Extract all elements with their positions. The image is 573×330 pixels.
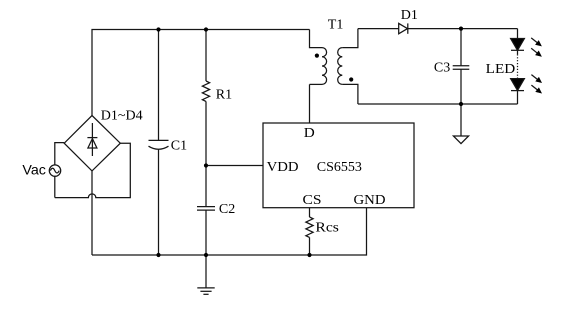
svg-text:C2: C2 — [219, 202, 235, 217]
svg-text:D1~D4: D1~D4 — [101, 108, 143, 123]
svg-text:C1: C1 — [171, 139, 187, 154]
svg-text:Rcs: Rcs — [315, 220, 339, 235]
svg-text:VDD: VDD — [267, 160, 299, 175]
svg-text:LED: LED — [486, 62, 516, 77]
svg-text:C3: C3 — [434, 60, 450, 75]
svg-text:R1: R1 — [216, 87, 232, 102]
svg-text:Vac: Vac — [22, 162, 46, 178]
svg-text:CS6553: CS6553 — [317, 160, 362, 175]
svg-text:CS: CS — [303, 193, 322, 208]
svg-text:D1: D1 — [401, 8, 418, 23]
svg-text:T1: T1 — [328, 17, 344, 32]
svg-text:GND: GND — [354, 193, 386, 208]
svg-text:D: D — [304, 126, 315, 141]
